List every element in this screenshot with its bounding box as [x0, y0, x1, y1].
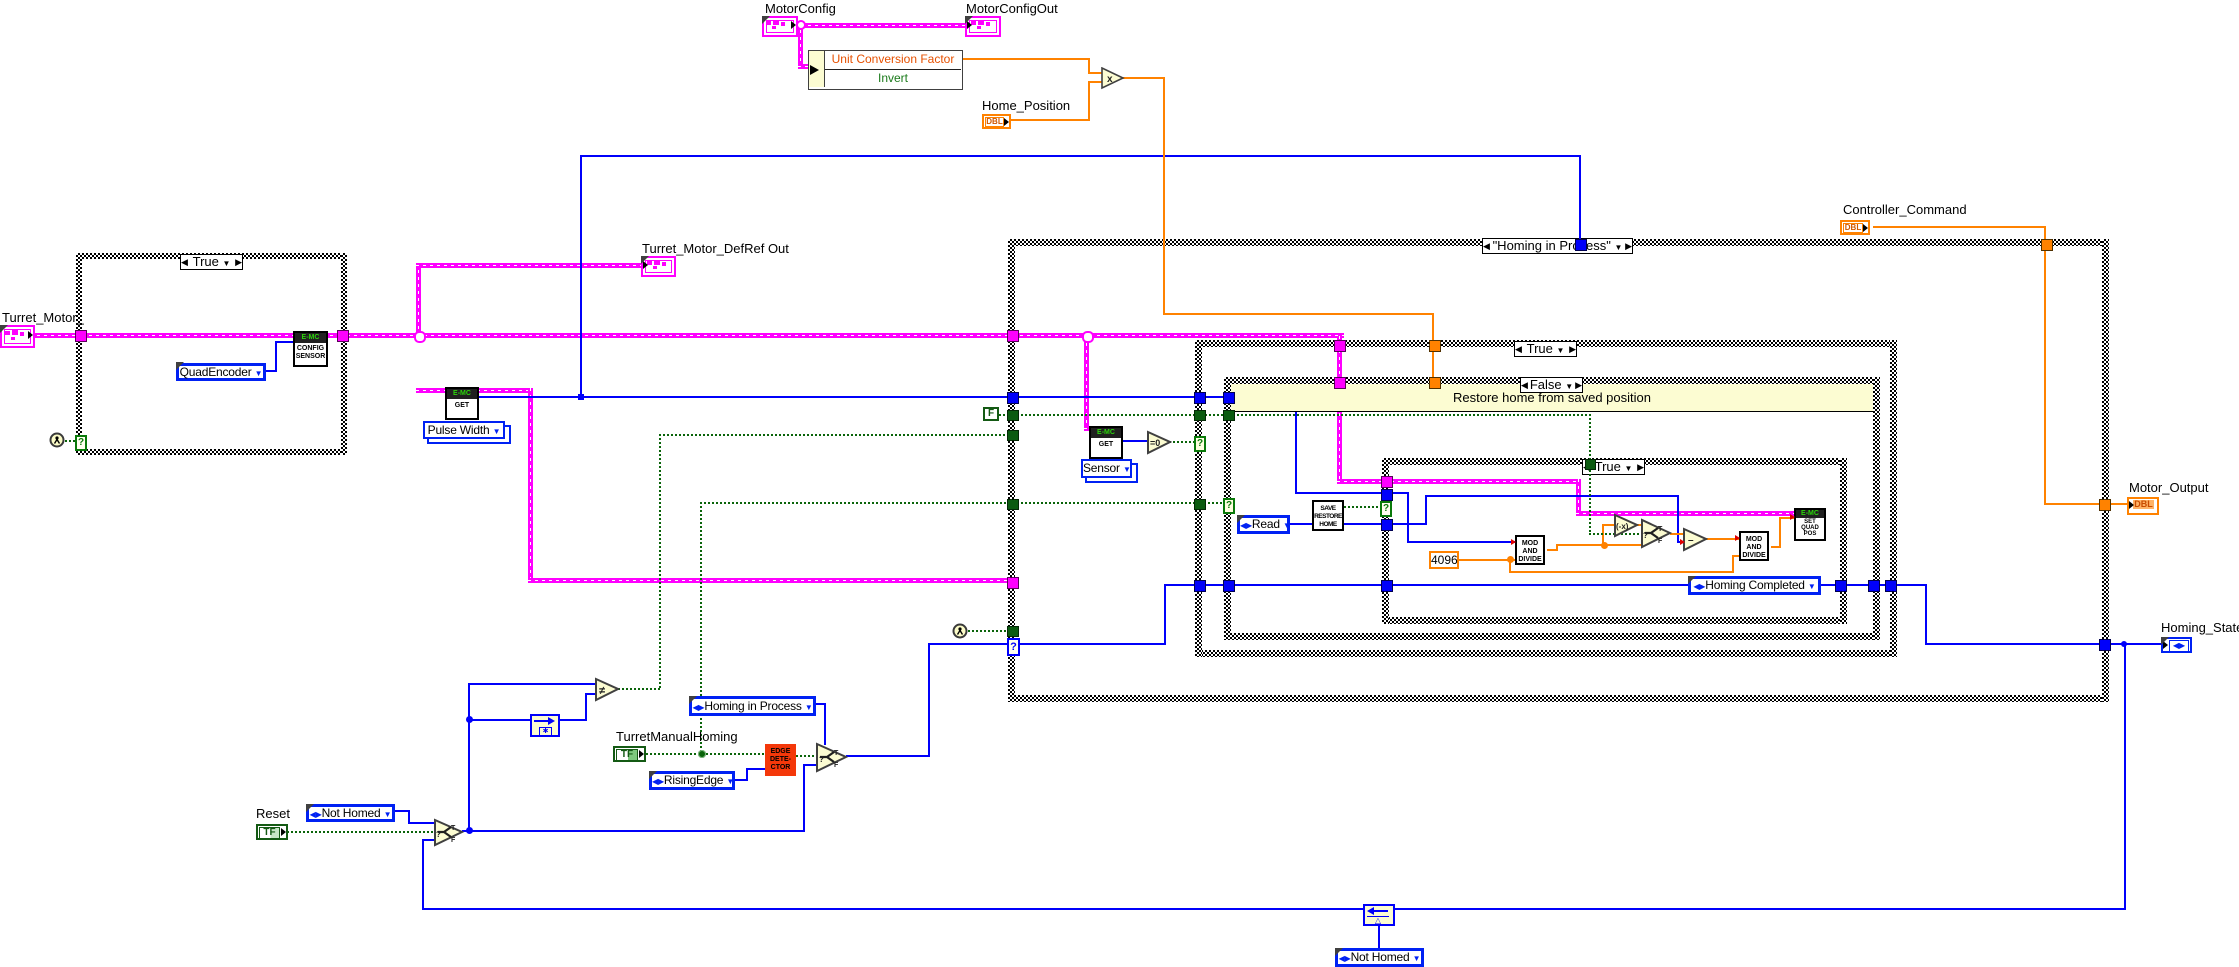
wire pink vertical x530: [528, 388, 533, 580]
feedback node right-arrow: [530, 714, 560, 737]
wire pink horizontal y580 to outer tunnel: [528, 578, 1013, 583]
tunnel pink case1 left: [75, 330, 87, 342]
node MOD AND DIVIDE 2: [1739, 531, 1769, 561]
tunnel blue level4 right y585: [1835, 580, 1847, 592]
wire pink y481 to inner True tunnel: [1337, 479, 1387, 484]
node E-MC SET QUAD POS: [1794, 508, 1826, 541]
wire blue SRH out to tunnel: [1344, 523, 1386, 525]
wire orange MAD1 output: [1547, 549, 1558, 551]
enum constant Sensor (with shadow): [1085, 463, 1138, 483]
wire green SRH out: [1344, 506, 1386, 508]
tunnel pink level3 top x1339: [1334, 377, 1346, 389]
selector tunnel level2 (green ?): [1194, 436, 1206, 452]
svg-text:?: ?: [436, 830, 441, 839]
wire blue y493 to inner tunnel: [1295, 492, 1387, 494]
wire pink Turret_Motor to case1: [30, 333, 82, 338]
selector tunnel level3 (green ?): [1223, 498, 1235, 514]
wire pink vertical to GET2: [1084, 336, 1089, 427]
wire orange 4096 output: [1459, 559, 1515, 561]
label Reset: [256, 807, 290, 820]
junction dot orange: [1601, 542, 1608, 549]
svg-text:=0: =0: [1150, 438, 1160, 448]
wire blue top input of neq: [468, 683, 596, 685]
case structure level2 (True) border: [1195, 340, 1897, 347]
wire blue vertical x1165: [1164, 584, 1166, 645]
node MOD AND DIVIDE 1: [1515, 535, 1545, 565]
tunnel blue outer right y644: [2099, 639, 2111, 651]
wire orange subtract output: [1706, 538, 1739, 540]
tunnel blue level3 right y585: [1868, 580, 1880, 592]
wire orange multiply output: [1123, 77, 1165, 79]
indicator Turret_Motor_DefRef Out (cluster): [641, 256, 676, 277]
svg-text:F: F: [451, 837, 456, 844]
wait icon case1: [49, 432, 65, 448]
tunnel pink level2 top x1339: [1334, 340, 1346, 352]
control MotorConfig (cluster): [762, 16, 798, 37]
wire green wait2: [968, 630, 1013, 632]
wire blue inner True upper path: [1391, 492, 1409, 494]
svg-text:F: F: [1658, 538, 1663, 545]
tunnel pink outer left y335: [1007, 330, 1019, 342]
selector tunnel outer case (blue ?): [1007, 638, 1020, 656]
svg-text:F: F: [834, 762, 839, 769]
wire blue vertical x1580 into outer top tunnel: [1579, 155, 1581, 240]
tunnel green level2 left y414: [1194, 410, 1206, 421]
coercion dot subtract: [1680, 539, 1685, 545]
enum constant RisingEdge: [649, 771, 735, 790]
control Controller_Command (DBL): [1840, 220, 1870, 235]
node EDGE DETECTOR: [765, 744, 796, 776]
wire pink vertical branch at x418: [416, 263, 421, 338]
wire green neq output up: [618, 688, 661, 690]
wire pink GET1 to vertical: [477, 388, 533, 393]
wire blue vertical x1927: [1925, 584, 1927, 645]
coercion dot MAD1: [1511, 539, 1516, 545]
svg-text:?: ?: [1643, 531, 1648, 540]
coercion dot SET QUAD POS: [1790, 514, 1795, 520]
label Home_Position: [982, 99, 1070, 112]
label MotorConfig: [765, 2, 836, 15]
constant F (false): [983, 407, 999, 421]
label TurretManualHoming: [616, 730, 738, 743]
banner Restore home from saved position: [1231, 384, 1873, 412]
enum constant Pulse Width (with shadow): [427, 425, 511, 444]
wire blue y644 to right tunnel: [1925, 643, 2102, 645]
selector tunnel case1 (green ?): [75, 435, 87, 451]
wire blue NotHomed1 to select1: [395, 810, 410, 812]
tunnel green level3 left y414: [1223, 410, 1235, 421]
wire pink y511 to SET QUAD POS: [1576, 511, 1795, 516]
multiply node: [1101, 67, 1125, 90]
wire blue feedback1 initializer: [1378, 926, 1380, 948]
case structure 1 selector label "True": [180, 254, 243, 270]
wire pink inside inner True y481: [1391, 479, 1580, 484]
junction dot select1: [466, 827, 473, 834]
tunnel pink case1 right: [337, 330, 349, 342]
wire green wait1: [65, 440, 79, 442]
wire blue bottom long right part: [1395, 908, 2126, 910]
wait icon outer: [952, 623, 968, 639]
level4 case selector label "True": [1582, 459, 1645, 475]
wire blue feedback2 out: [560, 719, 587, 721]
wire green F run to select3: [1017, 414, 1592, 416]
wire pink to Turret_Motor_DefRef Out: [416, 263, 642, 268]
wire blue vertical x423 up to select1: [422, 839, 424, 909]
enum constant QuadEncoder: [176, 363, 266, 381]
wire blue to feedback2: [468, 719, 530, 721]
node select1: [433, 818, 464, 847]
svg-text:T: T: [451, 825, 456, 832]
unbundle node (Unit Conversion Factor / Invert): [808, 50, 963, 90]
wire blue homing-state run y585: [1164, 584, 1927, 586]
level2 case selector label "True": [1514, 341, 1577, 357]
junction dot blue right: [2121, 641, 2127, 647]
wire pink vertical to unbundle: [798, 23, 803, 68]
wire blue top long: [581, 155, 1581, 157]
svg-text:(-x): (-x): [1616, 522, 1629, 531]
tunnel orange level3 top x1434: [1429, 377, 1441, 389]
svg-text:T: T: [1658, 526, 1663, 533]
case structure level3 (False) border: [1224, 377, 1880, 384]
wire blue select2 output: [846, 755, 930, 757]
wire green TurretManualHoming: [646, 753, 765, 755]
label Homing_State: [2161, 621, 2239, 634]
wire green F constant: [999, 414, 1013, 416]
wire blue from selector tunnel y644: [1017, 643, 1166, 645]
node E-MC GET2: [1089, 426, 1123, 459]
junction pink x1086: [1082, 331, 1094, 343]
wire green eq0 out: [1169, 441, 1196, 443]
wire blue vertical x581: [580, 155, 582, 397]
svg-text:x: x: [1107, 74, 1113, 85]
tunnel green level4 label: [1585, 459, 1596, 470]
wire pink MotorConfig to MotorConfigOut: [794, 23, 967, 28]
wire green edge detector out: [796, 755, 817, 757]
tunnel blue level2 left y397: [1194, 392, 1206, 404]
wire blue vertical x470 up: [468, 683, 470, 830]
node negate (-x): [1613, 513, 1639, 538]
control TurretManualHoming (TF): [613, 746, 646, 762]
enum constant Read: [1237, 515, 1290, 534]
control Reset (TF): [256, 824, 288, 840]
junction dot x470 y720: [466, 716, 473, 723]
tunnel blue level4 left y524: [1381, 519, 1393, 531]
node SAVE RESTORE HOME: [1312, 500, 1344, 531]
case structure level4 (inner True) border: [1382, 458, 1846, 465]
wire orange Controller_Command: [1873, 226, 2046, 228]
wire blue select2 F input from below: [803, 764, 805, 832]
junction pink MotorConfig: [796, 20, 806, 30]
tunnel blue outer top x1580: [1575, 239, 1587, 251]
tunnel blue outer left y397: [1007, 392, 1019, 404]
tunnel orange level2 top x1434: [1429, 340, 1441, 352]
tunnel green outer left y630 (wait): [1007, 626, 1019, 637]
wire blue bottom long left part: [422, 908, 1363, 910]
wire pink inside outer case y335: [1013, 333, 1344, 338]
wire green Reset: [287, 831, 435, 833]
node eq0: [1146, 430, 1172, 455]
wire pink vertical x1578: [1576, 479, 1581, 515]
selector tunnel level4 (green ?): [1380, 501, 1392, 517]
level3 case selector label "False": [1520, 377, 1583, 393]
junction pink x418: [414, 331, 426, 343]
tunnel green level2 left y503: [1194, 499, 1206, 510]
tunnel blue level3 left y397: [1223, 392, 1235, 404]
wire pink case1 to outer case: [347, 333, 1013, 338]
enum constant Homing in Process: [689, 696, 816, 716]
outer case selector label "Homing in Process": [1482, 238, 1633, 254]
node subtract: [1682, 527, 1708, 552]
enum constant Homing Completed: [1688, 576, 1821, 595]
svg-text:?: ?: [819, 755, 824, 764]
wire blue tunnel to Homing_State: [2109, 643, 2161, 645]
wire blue inner True lower path: [1391, 523, 1427, 525]
label MotorConfigOut: [966, 2, 1058, 15]
feedback node left-arrow: [1363, 904, 1395, 926]
coercion dot MAD2: [1735, 535, 1740, 541]
node select3: [1640, 518, 1672, 549]
svg-text:T: T: [834, 750, 839, 757]
indicator Motor_Output (DBL): [2127, 497, 2159, 515]
label Motor_Output: [2129, 481, 2209, 494]
wire blue vertical x1296: [1295, 396, 1297, 494]
tunnel orange outer top x2046: [2041, 239, 2053, 251]
tunnel green outer left y434 (neq): [1007, 430, 1019, 441]
wire orange select3 output: [1670, 533, 1684, 535]
outer case structure "Homing in Process" border: [1008, 239, 2109, 246]
junction dot blue: [578, 394, 584, 400]
wire pink CONFIG SENSOR to right tunnel: [323, 333, 347, 338]
tunnel blue level2 left y585: [1194, 580, 1206, 592]
control Turret_Motor (cluster): [0, 325, 35, 348]
wire blue GET2 to eq0: [1121, 440, 1148, 442]
junction circle green: [698, 750, 706, 758]
label Controller_Command: [1843, 203, 1967, 216]
wire blue RisingEdge to edge detector: [735, 779, 748, 781]
indicator MotorConfigOut (cluster): [965, 16, 1001, 37]
tunnel blue level2 right y585: [1885, 580, 1897, 592]
wire blue HomingInProcess enum to select2: [816, 703, 826, 705]
svg-text:–: –: [1688, 535, 1694, 546]
wire blue inside outer y397: [1013, 396, 1297, 398]
tunnel blue level4 left y585: [1381, 580, 1393, 592]
enum constant Not Homed 1: [306, 804, 395, 822]
wire pink down to E-MC GET1: [416, 388, 446, 393]
wire blue QuadEncoder to CONFIG SENSOR: [266, 370, 277, 372]
enum constant Not Homed 2: [1335, 948, 1424, 967]
constant 4096: [1429, 551, 1459, 569]
wire orange unbundle to multiply: [961, 58, 1090, 60]
node not-equal: [594, 677, 620, 702]
wire orange Home_Position to multiply: [1010, 119, 1090, 121]
wire orange negate output: [1637, 524, 1644, 526]
node E-MC GET1: [445, 387, 479, 420]
tunnel orange outer right y504: [2099, 499, 2111, 511]
wire blue select1 output: [462, 830, 805, 832]
wire pink inside case1 to CONFIG SENSOR: [82, 333, 293, 338]
tunnel blue level3 left y585: [1223, 580, 1235, 592]
tunnel pink level4 left y481: [1381, 476, 1393, 488]
label Turret_Motor_: [2, 311, 84, 324]
svg-text:≠: ≠: [599, 685, 605, 697]
node select2: [815, 742, 848, 773]
label Turret_Motor_DefRef Out: [642, 242, 789, 255]
tunnel pink outer left y580: [1007, 577, 1019, 589]
tunnel green outer left y502 (manual homing): [1007, 499, 1019, 510]
control Home_Position (DBL): [982, 114, 1011, 129]
wire pink vertical x1339 down: [1337, 336, 1342, 482]
case structure 1 (left, True) border: [76, 253, 347, 259]
node E-MC CONFIG SENSOR: [293, 331, 328, 367]
tunnel blue level4 left y493: [1381, 489, 1393, 501]
wire blue GET1 output: [477, 396, 1013, 398]
indicator Homing_State (enum): [2161, 637, 2192, 653]
tunnel green outer left y414 (F): [1007, 410, 1019, 421]
wire orange MAD2 output: [1771, 546, 1781, 548]
wire blue vertical x2125 down: [2124, 643, 2126, 909]
wire blue Read to SRH: [1290, 523, 1312, 525]
